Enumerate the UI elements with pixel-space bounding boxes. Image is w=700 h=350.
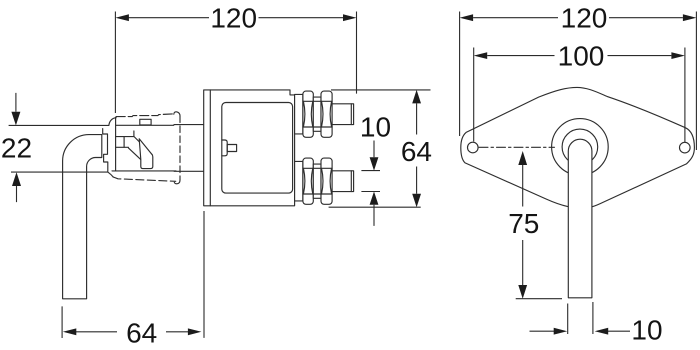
dashed centerline from hole to boss [479, 146, 555, 148]
lever block [116, 137, 125, 148]
dim 10 (left view) arrows [370, 157, 379, 205]
terminal lower: neck [313, 164, 321, 198]
dim 100 extension lines [474, 48, 685, 143]
dim 120 (left view) arrows [115, 14, 356, 21]
dim 64 (bottom) arrows [63, 328, 202, 335]
svg-text:64: 64 [401, 136, 432, 167]
small bolt stub [227, 145, 236, 152]
terminal lower: facet lines [303, 168, 332, 194]
dim 100 arrows [474, 52, 685, 59]
dim 120 (left view) line [128, 17, 343, 19]
terminal upper: stud end face [350, 104, 352, 125]
neck bottom line to body [174, 170, 204, 172]
dim 120 (left view) extension lines [115, 12, 356, 114]
dim 75 arrows [518, 151, 527, 299]
svg-text:22: 22 [1, 133, 32, 164]
neck top line to body [174, 124, 204, 126]
dim 22 tick lines [9, 125, 109, 172]
housing bottom skirt (dashed) [113, 177, 176, 181]
dim 64 (right side) arrows [412, 90, 421, 207]
terminal upper: hex nut 2 [321, 91, 332, 137]
terminal lower: hex nut 1 [303, 158, 313, 204]
left mounting hole [468, 142, 479, 153]
lever end fitting [139, 139, 153, 169]
housing top-left corner [109, 118, 116, 126]
dim 64 (right side) line [416, 103, 418, 193]
svg-text:10: 10 [631, 314, 662, 345]
dim 10 (left view) ticks [361, 171, 380, 192]
terminal lower: washer [295, 161, 303, 201]
body mounting plate (flange edge-on) and body outline [204, 90, 295, 206]
terminal lower: hex nut 2 [321, 158, 332, 204]
dim 120 (right view) extension lines [460, 12, 697, 151]
terminal lower: nut chamfer arcs [303, 168, 331, 194]
terminal upper: washer [295, 94, 303, 133]
housing inner cavity left wall [115, 117, 117, 171]
lever bar upper edge [124, 137, 152, 155]
right mounting hole [680, 142, 691, 153]
housing boss staircase (left face of housing) [103, 129, 114, 177]
dim 75 line [522, 165, 524, 285]
dim 64 (right side) extension lines [329, 90, 431, 207]
dim 100 line [487, 55, 671, 57]
svg-text:75: 75 [508, 208, 539, 239]
dim 10 (right view) extension lines [568, 302, 593, 334]
terminal lower: stud [332, 171, 354, 192]
svg-text:64: 64 [126, 317, 157, 348]
terminal upper: hex nut 1 [303, 91, 313, 137]
dim 10 (left view) arrow tails [373, 141, 375, 226]
terminal upper: nut chamfer arcs [303, 101, 331, 127]
lever elbow and rod (side view) [63, 135, 102, 299]
housing bell flange top hook [174, 112, 180, 116]
dim 75 bottom tick [516, 298, 562, 300]
plate divider line [209, 90, 211, 206]
dim 10 (right view) arrow tails [530, 330, 631, 332]
dim 120 (right view) arrows [460, 14, 697, 21]
flange plate (rounded diamond, front view) [461, 87, 695, 206]
housing inner cavity top [116, 124, 174, 126]
terminal upper: stud [332, 104, 354, 125]
housing bell flange bottom hook [174, 180, 180, 184]
operating rod (front view, rounded top) [568, 139, 592, 298]
lever step [124, 146, 128, 148]
terminal upper: neck [313, 97, 321, 131]
svg-text:120: 120 [210, 3, 257, 34]
small bolt boss on body [222, 140, 227, 156]
dim 64 (bottom) line [76, 331, 189, 333]
terminal upper: facet lines [303, 101, 332, 127]
terminal lower: stud end face [350, 171, 352, 192]
body inner rounded rect [222, 103, 293, 194]
dim 10 (right view) arrows [554, 328, 609, 335]
lever bar lower edge [128, 148, 140, 160]
lever bar stub up [133, 131, 135, 137]
dim 64 (bottom) extension lines [62, 211, 204, 338]
svg-text:10: 10 [360, 112, 391, 143]
dim 22 arrows [11, 112, 21, 186]
housing inner cavity bottom [112, 170, 176, 172]
housing top edge (dashed) [116, 114, 174, 117]
dim 22 arrow tails [15, 93, 18, 202]
dim 120 (right view) line [473, 17, 683, 19]
center boss outer circle [552, 119, 609, 176]
center boss inner circle [562, 129, 598, 165]
housing top tab [140, 119, 151, 125]
svg-text:100: 100 [558, 40, 605, 71]
housing bell flange edge (dashed) [179, 116, 181, 180]
svg-text:120: 120 [561, 2, 608, 33]
